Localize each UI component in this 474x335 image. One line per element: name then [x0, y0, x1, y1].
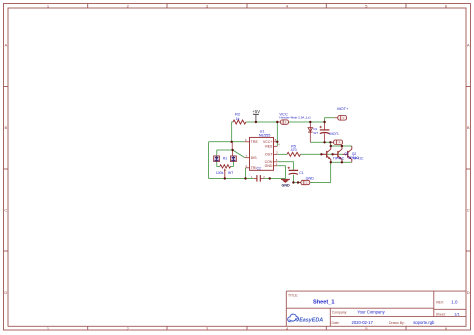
node MOT- header junction — [329, 141, 331, 143]
U1 pin numbers — [245, 138, 280, 168]
wire: R5 to transistor bases — [300, 153, 342, 155]
svg-text:1/1: 1/1 — [454, 312, 460, 317]
wire: D1 top lead — [309, 122, 311, 128]
svg-text:D: D — [4, 290, 7, 295]
node pot wiper on rail — [224, 177, 226, 179]
svg-text:REV:: REV: — [436, 301, 444, 305]
svg-text:B: B — [467, 125, 470, 130]
svg-text:DIS: DIS — [251, 156, 257, 160]
svg-text:C: C — [4, 207, 7, 212]
svg-text:Sheet_1: Sheet_1 — [313, 299, 334, 305]
wire: D1 bottom lead — [309, 132, 311, 142]
node R2/THR junction — [231, 141, 233, 143]
svg-text:MOT+: MOT+ — [337, 106, 349, 111]
wire: diode top link — [217, 149, 233, 151]
svg-text:C1: C1 — [299, 171, 303, 175]
wire: OUT to R5 — [277, 153, 287, 155]
header MOT- — [330, 140, 342, 144]
svg-text:470: 470 — [291, 148, 297, 152]
power flag +5V — [252, 109, 260, 122]
svg-text:A: A — [4, 42, 7, 47]
svg-text:GND: GND — [306, 176, 315, 180]
wire: MOT- down to collector rail — [329, 142, 331, 146]
svg-text:TIP41C: TIP41C — [352, 157, 364, 161]
node Q1 emitter — [330, 161, 332, 163]
svg-text:TRE: TRE — [251, 140, 259, 144]
transistor labels — [333, 152, 364, 160]
svg-text:WT: WT — [228, 171, 233, 175]
wire: IC GND pin to ground symbol — [277, 166, 285, 179]
capacitor C1 (electrolytic) — [288, 167, 304, 175]
svg-text:B: B — [4, 125, 7, 130]
wire: THR horizontal net — [209, 141, 246, 143]
wire: VCC+/RES tie — [276, 122, 278, 146]
resistor R5 470 — [287, 144, 300, 156]
node TRI on rail — [244, 177, 246, 179]
svg-text:C: C — [467, 207, 470, 212]
svg-text:D: D — [467, 290, 470, 295]
svg-text:Your Company: Your Company — [357, 310, 385, 315]
svg-text:GND: GND — [265, 164, 273, 168]
resistor R2 1k — [233, 112, 246, 124]
wire: link to DIS pin — [233, 150, 245, 158]
svg-text:EasyEDA: EasyEDA — [299, 317, 323, 323]
svg-text:2020-02-17: 2020-02-17 — [352, 320, 374, 325]
wire: emitter rail drop to ground — [330, 162, 332, 182]
wire: VCC rail from header to MOT+ riser — [289, 121, 325, 123]
svg-text:VCC+: VCC+ — [263, 140, 272, 144]
capacitor C2 — [251, 167, 266, 182]
svg-text:RES: RES — [265, 145, 273, 149]
wire: pot right elbow — [231, 162, 234, 167]
wire: CON to C1 — [277, 162, 293, 170]
header MOT+ — [335, 106, 349, 120]
op-amp/timer U1 NE555 — [250, 129, 274, 170]
node C1 on ground rail — [292, 181, 294, 183]
svg-text:TIP41C: TIP41C — [333, 157, 345, 161]
transistor Q2 TIP41C — [333, 146, 342, 162]
node header VCC tap — [276, 121, 278, 123]
node Q1 base — [320, 153, 322, 155]
wire: riser to MOT+ header — [325, 118, 335, 122]
node +5V tap — [255, 121, 257, 123]
header P_VCC (Header-Male 2.54_1x1) — [277, 111, 311, 124]
diode D3 (right of pot) — [230, 156, 236, 162]
U1 pin stubs — [245, 142, 277, 168]
svg-text:R1: R1 — [223, 157, 227, 161]
wire: left vertical of timing node — [208, 142, 210, 179]
node Q2 collector — [341, 145, 343, 147]
wire: TRI pin drop — [245, 168, 247, 179]
svg-text:Sheet:: Sheet: — [436, 312, 446, 316]
wire: emitter rail — [331, 161, 352, 163]
wire: bottom timing rail to C2 — [209, 178, 254, 180]
wire: C2 right to GND symbol — [264, 178, 286, 180]
svg-text:1k: 1k — [236, 117, 240, 121]
wire: VCC rail from R2 to header P_VCC — [246, 121, 277, 123]
potentiometer R1 100k — [216, 157, 233, 179]
svg-text:GND: GND — [281, 183, 290, 187]
node C3/MOT+ tap — [323, 121, 325, 123]
svg-text:C2: C2 — [257, 167, 261, 171]
svg-text:OUT: OUT — [265, 153, 273, 157]
node Q1 collector — [330, 145, 332, 147]
transistor Q1 TIP41C — [321, 146, 330, 162]
wire: R2 node down to diode pair — [231, 142, 233, 150]
wire: C3 top lead — [324, 122, 326, 130]
svg-text:+5V: +5V — [252, 109, 260, 114]
svg-text:soporte.rgb: soporte.rgb — [413, 320, 435, 325]
ground symbol GND — [281, 179, 290, 187]
svg-text:Drawn By:: Drawn By: — [389, 321, 405, 325]
node C3 on MOT- net — [323, 141, 325, 143]
node P_GND pin — [297, 181, 299, 183]
svg-text:TITLE:: TITLE: — [288, 294, 298, 298]
svg-text:WT: WT — [313, 131, 318, 135]
wire: right diode top pin — [232, 150, 234, 156]
node diode pair top — [231, 149, 233, 151]
svg-text:NE555: NE555 — [259, 133, 271, 137]
wire: pot left elbow — [217, 162, 220, 167]
capacitor C3 (electrolytic) — [320, 126, 330, 134]
node rail joint — [269, 177, 271, 179]
header P_GND — [298, 176, 314, 184]
wire: left diode top corner — [216, 150, 218, 156]
wire: collector rail — [330, 145, 351, 147]
svg-text:Company:: Company: — [332, 311, 348, 315]
wire: MOT- net — [310, 141, 330, 143]
node Q2 base — [331, 153, 333, 155]
wire: C3 bottom lead — [324, 133, 326, 142]
diode D2 (left of pot) — [214, 156, 220, 162]
svg-text:A: A — [467, 42, 470, 47]
svg-text:1.0: 1.0 — [451, 300, 458, 305]
svg-text:Date:: Date: — [332, 321, 340, 325]
wire: ground rail through P_GND — [293, 182, 301, 184]
svg-text:Header-Male 2.54_1x1: Header-Male 2.54_1x1 — [279, 116, 311, 120]
wire: C1 bottom lead — [292, 175, 294, 183]
node Q2 emitter — [341, 161, 343, 163]
transistor Q3 TIP41C — [342, 146, 351, 162]
svg-text:100k: 100k — [216, 171, 224, 175]
svg-text:MOT-: MOT- — [329, 131, 340, 136]
node VCC+ pin junction — [276, 141, 278, 143]
wire: R2 left lead down to THR net — [232, 122, 233, 142]
diode D1 (flyback) — [308, 127, 318, 135]
node D1 tap — [309, 121, 311, 123]
